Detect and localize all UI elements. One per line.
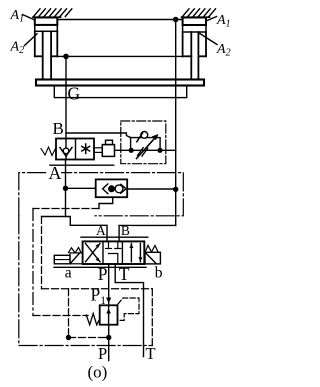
node: left junction in throttle unit xyxy=(129,148,134,153)
center position blocked ports and link xyxy=(106,242,121,264)
svg-text:B: B xyxy=(53,119,64,138)
drain line (dashed) across to tank side xyxy=(42,288,153,290)
wire: node A to check valve inlet xyxy=(66,187,96,189)
fixed support (hatched ceiling, left) xyxy=(33,9,72,17)
wire: check valve outlet to A1 drop line xyxy=(127,188,176,190)
leader line label A2 left xyxy=(25,34,38,46)
spring of valve B (left) xyxy=(41,147,56,156)
drain line (dashed) down right to tank line xyxy=(151,289,153,346)
node: junction dot above P xyxy=(106,335,111,340)
wire: branch from port B line to bypass check valve xyxy=(66,133,131,138)
wire: rod-side (A2) line between cylinders xyxy=(57,55,182,57)
node: right junction in throttle unit xyxy=(157,148,162,153)
wire: valve B pilot to throttle unit xyxy=(115,149,132,151)
pilot line (dashed) from A line down xyxy=(41,217,43,289)
wire: node A vertical (valve B port A downward) xyxy=(65,160,67,217)
wire: subplate line under valve B xyxy=(50,164,114,166)
wire: port T down and right to tank line T xyxy=(115,264,143,357)
svg-text:T: T xyxy=(146,344,156,363)
wire: head-side (A1) line between cylinders xyxy=(57,19,182,21)
moving platen G xyxy=(36,80,204,98)
pilot operated check valve xyxy=(96,179,128,197)
valve B (prefill/balance valve, 2-position) xyxy=(56,139,94,160)
check valve bypass loop xyxy=(131,132,161,151)
svg-text:(o): (o) xyxy=(88,363,108,382)
adjustable throttle symbol (slashes and arrow) xyxy=(137,134,159,159)
wire: node A line to valve port A xyxy=(42,217,108,242)
svg-text:a: a xyxy=(65,265,72,282)
node: pilot junction dot left xyxy=(66,335,71,340)
spring of reducing valve (left) xyxy=(86,314,99,325)
directional valve 4/3 body xyxy=(54,237,148,267)
wire: A2 drop to valve B port B xyxy=(65,56,67,138)
svg-text:A: A xyxy=(49,163,62,183)
closed-position symbol (asterisk) in valve B xyxy=(82,144,90,153)
node: junction on A2 line xyxy=(63,54,69,60)
enclosure (chain box) of one-way throttle unit xyxy=(121,121,166,164)
pilot line (dashed) to reducing valve spring xyxy=(33,315,88,317)
cylinder left (chambers A1/A2, rod down) xyxy=(35,18,58,80)
pilot line step from check valve bottom xyxy=(99,197,113,208)
solenoid a (left) xyxy=(54,253,82,264)
pilot line (dashed) to left xyxy=(33,208,99,210)
spring left of directional valve xyxy=(69,248,82,253)
left position crossed arrows xyxy=(86,244,101,262)
leader line label A1 left xyxy=(23,15,35,21)
leader line label A2 right xyxy=(199,33,217,45)
wire: port B line from A1 drop xyxy=(119,225,176,241)
leader line label A1 right xyxy=(206,17,217,22)
reducing valve (pressure valve P1) xyxy=(100,305,118,324)
fixed support (hatched ceiling, right) xyxy=(182,9,216,17)
wire: A1 drop line down right side xyxy=(175,20,177,226)
wire: throttle main line xyxy=(131,149,176,151)
svg-text:T: T xyxy=(119,264,130,284)
node: junction dot on A1 drop line xyxy=(173,187,178,192)
pilot line (dashed) down left side xyxy=(32,209,34,316)
cylinder right (chambers A1/A2, rod down) xyxy=(183,18,206,80)
svg-text:A: A xyxy=(96,223,106,238)
svg-text:B: B xyxy=(121,223,130,238)
svg-text:P: P xyxy=(98,264,108,284)
pilot line (dashed) loop of reducing valve xyxy=(118,298,140,320)
node A junction dot xyxy=(63,186,68,191)
svg-text:G: G xyxy=(68,84,81,104)
wire: reducing valve to pump port P xyxy=(108,325,110,361)
node: junction on A1 line xyxy=(173,17,179,23)
solenoid b (right) xyxy=(145,252,160,264)
svg-text:P: P xyxy=(98,344,107,363)
spring right of directional valve xyxy=(145,245,158,252)
svg-text:b: b xyxy=(155,265,163,282)
label backgrounds xyxy=(48,167,62,180)
pilot line (dashed) down to node under reducing valve xyxy=(68,289,70,338)
pilot line (dashed) to node P1 bottom xyxy=(69,337,109,339)
right position parallel arrows xyxy=(129,244,142,262)
pilot plunger of valve B (right) xyxy=(94,140,115,156)
wire: port P down to reducing valve (with flow arrow) xyxy=(106,264,111,305)
enclosure frame (chain lines) xyxy=(19,173,184,346)
